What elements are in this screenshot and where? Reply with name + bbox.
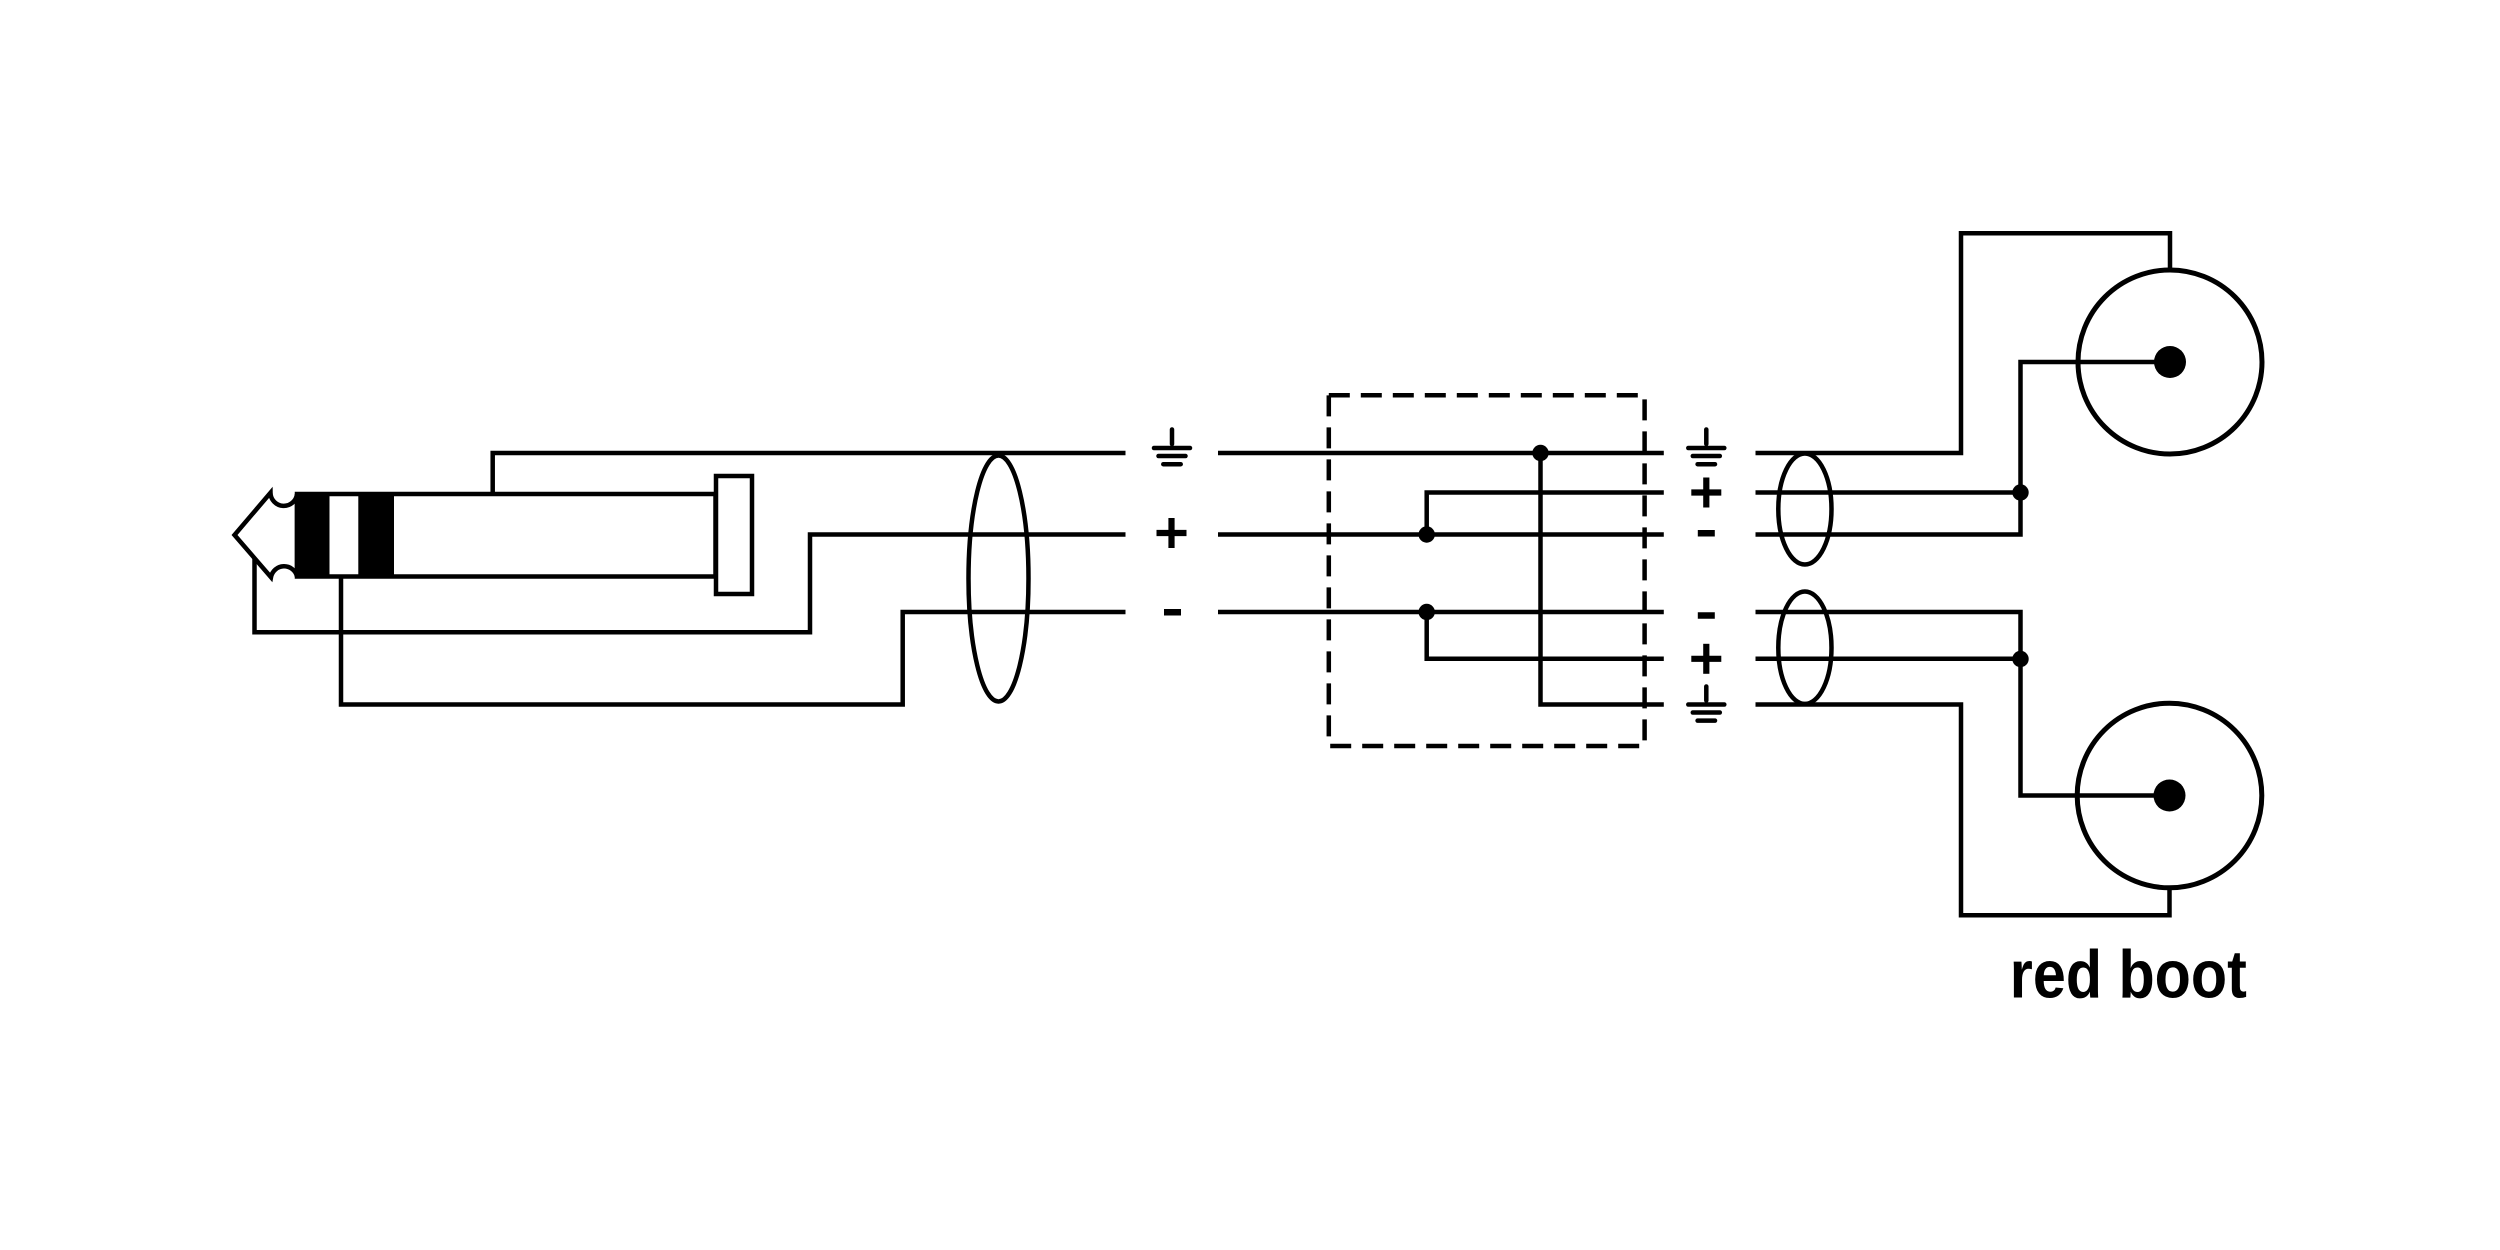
plus label bottom right cable (1691, 644, 1721, 674)
plus label left cable (1157, 518, 1187, 548)
wire bottom RCA + (1756, 657, 2021, 662)
junction dot bottom RCA + (2012, 651, 2028, 667)
adapter junction box (dashed) (1329, 395, 1645, 746)
wire - into adapter box (1218, 610, 1664, 615)
ground symbol left cable (1154, 430, 1190, 465)
RCA plug P2 shell (bottom) (2077, 703, 2262, 888)
wire - branch to bottom RCA + (1427, 612, 1664, 659)
junction dot + in box (1419, 526, 1435, 542)
wire sleeve from jack barrel to cable (ground, left) (493, 453, 1126, 494)
TRS jack plug J1 washer (716, 476, 752, 594)
RCA plug P1 shell (top) (2078, 270, 2262, 454)
wire bottom RCA ground to shell (1756, 705, 2170, 916)
svg-text:red boot: red boot (2010, 936, 2247, 1012)
ground symbol top right cable (1688, 430, 1724, 465)
junction dot - in box (1419, 604, 1435, 620)
wire top RCA ground to shell (1756, 233, 2171, 453)
wire + branch to top RCA + (1427, 493, 1664, 535)
RCA plug P1 center pin (2154, 346, 2186, 378)
wire ring contact to cable (- , left) (341, 577, 1126, 705)
RCA plug P2 center pin (2154, 780, 2186, 812)
cable jacket ellipse (bottom right cable) (1778, 592, 1831, 704)
wire top RCA - to center pin (1756, 362, 2171, 535)
junction dot top RCA + (2012, 484, 2028, 500)
minus label left cable (1164, 609, 1181, 616)
wire ground branch to bottom RCA ground (1541, 453, 1664, 705)
ground symbol bottom right cable (1688, 687, 1724, 721)
minus label top right cable (1698, 530, 1715, 537)
cable jacket ellipse (top right cable) (1778, 454, 1831, 565)
wire top RCA + (1756, 490, 2021, 495)
minus label bottom right cable (1698, 612, 1715, 619)
TRS jack plug J1 body outline (297, 494, 716, 577)
cable jacket ellipse (left cable) (969, 456, 1029, 702)
TRS jack plug J1 tip (235, 493, 298, 577)
wire tip contact to cable (+ , left) (255, 535, 1126, 633)
TRS jack plug J1 tip separator band (297, 494, 330, 577)
wire + into adapter box (1218, 532, 1664, 537)
plus label top right cable (1691, 478, 1721, 508)
wire bottom RCA - to center pin (1756, 612, 2170, 796)
junction dot ground in box (1532, 445, 1548, 461)
TRS jack plug J1 ring separator band (358, 494, 394, 577)
wire ground into adapter box (1218, 451, 1664, 456)
